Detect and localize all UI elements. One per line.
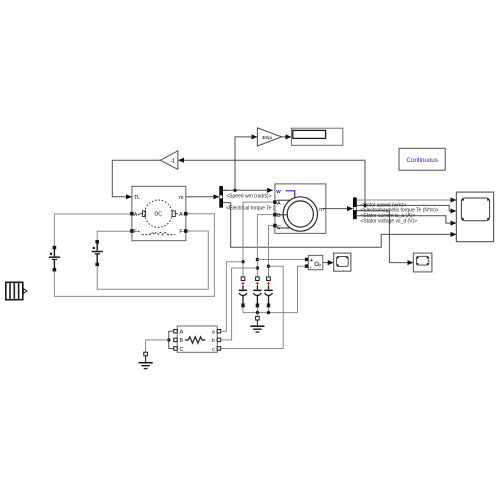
wire battery B1 minus loop to DC A- [54, 214, 214, 297]
wire bus2 out1 rotor speed to scope in1 [357, 199, 456, 201]
DC machine block U1 [132, 186, 186, 240]
capacitor C1 [239, 277, 247, 313]
wire battery B2 plus to DC F+ [97, 231, 130, 240]
svg-text:m: m [179, 195, 183, 201]
wire machine phase C down to capacitor bank [269, 226, 274, 277]
gain G1 (30/pi) [257, 128, 281, 146]
svg-text:B: B [277, 213, 281, 219]
capacitor C3 [264, 277, 272, 313]
node phase A load tap [241, 260, 244, 263]
load block RL [177, 326, 217, 353]
svg-text:<Speed wm (rad/s)>: <Speed wm (rad/s)> [226, 194, 271, 200]
port VM plus [305, 258, 309, 262]
svg-text:-: - [310, 265, 312, 271]
port load B [174, 338, 178, 342]
scope Scope2 [413, 253, 432, 272]
wire speed from bus1 out1 to machine w input [223, 189, 273, 191]
svg-text:DC: DC [154, 212, 162, 218]
port load b [217, 338, 221, 342]
wire phase B to VM plus [257, 259, 304, 261]
battery B2 [92, 240, 103, 266]
node speed branch [233, 189, 236, 192]
wire machine phase B down to capacitor bank [257, 215, 273, 277]
machine SM block [275, 184, 326, 234]
wire machine m to bus selector 2 [326, 208, 353, 210]
svg-text:30/pi: 30/pi [262, 135, 272, 141]
voltage measurement VM [308, 255, 323, 270]
gain G2 (-1) left pointing [160, 151, 178, 170]
svg-text:F+: F+ [134, 229, 140, 235]
node rail C3 [267, 311, 270, 314]
svg-text:c: c [212, 347, 215, 353]
svg-text:A-: A- [179, 212, 184, 218]
wire bus1 out1 stub [223, 189, 228, 191]
powergui block Continuous [399, 148, 445, 170]
node phase B VM tap [256, 258, 259, 261]
node load tie [167, 338, 170, 341]
wire DC machine m to bus selector 1 [186, 196, 219, 198]
battery B1 [49, 246, 60, 272]
svg-text:A: A [277, 201, 281, 207]
port machine C [273, 224, 277, 228]
wire battery B1 plus to DC A+ [54, 214, 130, 246]
display block [291, 128, 342, 145]
svg-text:w: w [275, 189, 281, 195]
wire VM output to scope1 [323, 262, 333, 264]
node Te feedback branch [363, 204, 366, 207]
wire load b to phase B [221, 268, 258, 340]
port VM minus [305, 264, 309, 268]
wire load ABC tie [169, 331, 174, 348]
port F- [184, 229, 188, 233]
port load C [174, 347, 178, 351]
wire bus1 out2 electrical torque to scope in4 [223, 203, 456, 248]
port F+ [130, 229, 134, 233]
wire gain to display [282, 136, 291, 138]
svg-text:B: B [180, 338, 184, 344]
wire load c to phase C [221, 266, 284, 348]
wire load tie to ground [146, 340, 169, 352]
node rail C2 [256, 311, 259, 314]
wire rail to VM minus [298, 266, 305, 312]
wire machine phase A down to capacitor bank [243, 202, 273, 277]
svg-text:<Stator voltage vs_d (V)>: <Stator voltage vs_d (V)> [360, 218, 417, 224]
wire capacitor neutral rail [243, 312, 298, 314]
scope Scope1 [334, 253, 351, 271]
ground G2 load [139, 352, 153, 369]
port load c [217, 347, 221, 351]
port A+ [130, 212, 134, 216]
wire bus2 out2 Te to scope in2 [357, 205, 456, 211]
svg-text:C: C [180, 347, 184, 353]
bus selector 1 [219, 186, 223, 208]
svg-text:F-: F- [179, 229, 184, 235]
port machine B [273, 213, 277, 217]
port load a [217, 330, 221, 334]
ground G1 capacitor bank [250, 313, 264, 333]
wire bus2 out3 stator current to scope2 [357, 211, 413, 263]
source block stairs [6, 282, 27, 299]
wire load a to phase A [221, 262, 243, 332]
node phase B load tap [256, 266, 259, 269]
port machine A [273, 200, 277, 204]
capacitor C2 [253, 277, 261, 313]
node phase C load tap [267, 265, 270, 268]
port load A [174, 330, 178, 334]
wire -1 gain output to DC machine TL [112, 160, 160, 197]
bus selector 2 [353, 197, 357, 219]
svg-text:a: a [212, 330, 215, 336]
svg-text:A+: A+ [134, 212, 141, 218]
wire TL feedback from bus2 out2 up to -1 gain [179, 160, 365, 205]
svg-text:TL: TL [134, 195, 140, 201]
wire speed branch up to 30/pi gain [235, 137, 257, 190]
wire battery B2 minus loop to DC F- [97, 231, 208, 289]
svg-text:b: b [212, 338, 215, 344]
svg-text:m: m [319, 207, 324, 213]
scope Scope (big) [456, 192, 493, 242]
svg-text:-1: -1 [170, 158, 175, 164]
svg-text:A: A [180, 330, 184, 336]
wire bus2 out4 stator voltage to scope in3 [357, 216, 456, 223]
port A- [184, 212, 188, 216]
svg-text:Continuous: Continuous [407, 157, 438, 164]
